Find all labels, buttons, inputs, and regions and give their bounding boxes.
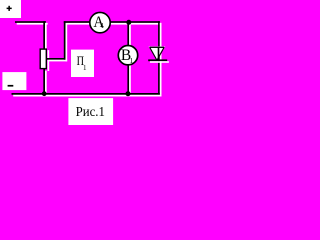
svg-text:1: 1 bbox=[130, 56, 134, 65]
voltmeter B1 bbox=[118, 46, 137, 65]
node junction dot left (rheostat to bottom wire) bbox=[42, 91, 47, 96]
wire top main horizontal bbox=[64, 21, 160, 23]
wire rheostat tap horizontal bbox=[47, 58, 65, 60]
svg-text:1: 1 bbox=[101, 21, 105, 30]
label box plus terminal bbox=[0, 0, 21, 18]
diode D1 triangle bbox=[149, 46, 166, 60]
diode D1 cathode bar bbox=[148, 59, 167, 61]
rheostat P1 body bbox=[48, 50, 50, 71]
wire left vertical upper (to rheostat) bbox=[43, 21, 45, 49]
wire segment through diode D1 bbox=[158, 47, 160, 59]
minus label bbox=[8, 85, 14, 87]
wire right vertical (through diode) bbox=[158, 21, 160, 95]
node junction dot bottom (voltmeter to bottom wire) bbox=[126, 91, 131, 96]
wire bottom horizontal bbox=[12, 93, 160, 95]
plus label bbox=[7, 8, 12, 10]
wire top-left horizontal (from + terminal) bbox=[15, 21, 46, 23]
ammeter A1 bbox=[90, 12, 110, 32]
wire tap vertical (up to top wire) bbox=[64, 21, 66, 60]
wire branch vertical (junction to voltmeter to bottom) bbox=[127, 22, 129, 94]
wire left vertical lower (rheostat to bottom wire) bbox=[43, 69, 45, 94]
label box rheostat bbox=[71, 50, 94, 77]
caption box bbox=[68, 98, 113, 125]
svg-text:1: 1 bbox=[83, 64, 87, 72]
svg-text:Рис.1: Рис.1 bbox=[76, 105, 105, 120]
label box minus terminal bbox=[2, 72, 26, 90]
node junction dot top (net to voltmeter) bbox=[126, 20, 131, 25]
